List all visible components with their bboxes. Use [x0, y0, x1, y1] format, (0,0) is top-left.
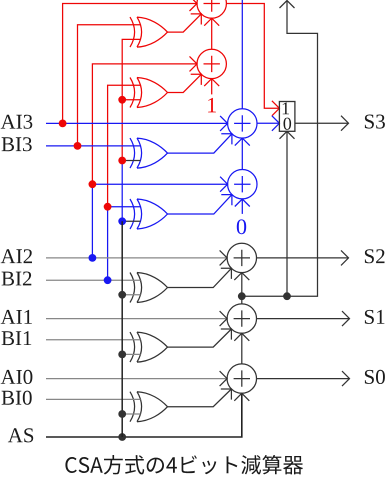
wire AI3 line [46, 122, 228, 124]
label BI3 [2, 137, 32, 151]
wire X2L out to FA2L [168, 195, 232, 214]
xor gate X2 (bit2) [130, 273, 168, 303]
wire AI2 to FA2H [92, 64, 197, 184]
wire constant 0 into FA2L [241, 199, 243, 214]
label AI0 [1, 370, 33, 384]
node AS/X0 junction [118, 410, 126, 418]
wire constant 1 into FA2H [211, 79, 213, 95]
node AS/X2 junction [118, 291, 126, 299]
wire BI3 line [46, 145, 141, 147]
wire AI0 line [46, 378, 227, 380]
full adder FA0 (bit0) [227, 364, 256, 393]
label AS [8, 428, 33, 442]
wire AS stub to X1 [122, 353, 140, 355]
wire AI2 branch to FA2L [92, 184, 227, 258]
wire X0 out to FA0 [168, 389, 232, 407]
node AS/X2L junction [118, 217, 126, 225]
xor gate X3H (red) [130, 17, 168, 47]
full adder FA2L (blue, carry=0 chain, bit2) [228, 170, 257, 199]
node carry branch [238, 292, 246, 300]
wire AS to X3H [122, 39, 140, 160]
node AI2/FA2L junction [89, 180, 97, 188]
wire AS line [46, 393, 242, 437]
wire select net [242, 1, 318, 297]
label constant 0 [237, 219, 246, 234]
mux M1 label 0 [284, 118, 292, 130]
xor gate X0 (bit0) [130, 392, 168, 422]
node BI2/X2L junction [104, 203, 112, 211]
caption CSA 4bit subtractor [65, 455, 303, 475]
wire S2 output [257, 257, 349, 259]
label AI3 [1, 115, 33, 129]
label constant 1 [208, 98, 216, 113]
wire AI2 line [46, 257, 227, 259]
node AS column junction [118, 433, 126, 441]
wire AS stub to X0 [122, 413, 140, 415]
xor gate X2L (blue) [130, 199, 168, 229]
node AI2 branch [89, 254, 97, 262]
full adder FA3H (red, carry=1 chain, bit3) [197, 0, 226, 18]
node AS/X2H junction [118, 96, 126, 104]
wire X1 out to FA1 [168, 329, 232, 347]
label BI0 [2, 391, 32, 405]
wire S3 output [295, 122, 349, 124]
wire S1 output [257, 318, 350, 320]
wire carry FA2H to FA3H [211, 18, 213, 49]
label AI2 [1, 249, 32, 263]
wire FA3L sum to mux input 0 [257, 122, 279, 124]
wire X2 out to FA2 [168, 268, 232, 287]
wire AS column (black) [121, 221, 123, 437]
wire BI2 branch to X2L [108, 207, 141, 281]
wire AS stub to X2L [122, 220, 140, 222]
wire X2H out to FA2H [168, 74, 202, 92]
mux M1 label 1 [283, 102, 289, 114]
wire AS to X2H [122, 99, 140, 101]
full adder FA1 (bit1) [227, 304, 256, 333]
wire BI3 to X3H [78, 25, 141, 146]
wire S0 output [257, 378, 350, 380]
wire BI1 line [46, 339, 141, 341]
xor gate X2H (red) [130, 78, 168, 108]
wire BI2 to X2H [108, 85, 141, 207]
label BI1 [2, 331, 32, 345]
wire AS stub to X2 [122, 294, 140, 296]
label S3 [365, 115, 385, 129]
wire AI1 line [46, 318, 227, 320]
node AI3 branch [59, 120, 67, 128]
label S2 [365, 249, 385, 263]
node select branch [283, 292, 291, 300]
wire BI0 line [46, 398, 141, 400]
node BI3 branch [74, 142, 82, 150]
wire FA3L carry out (top) [241, 0, 243, 109]
wire carry FA1 to FA2 [241, 273, 243, 304]
label AI1 [1, 310, 32, 324]
wire AS blue segment [121, 161, 123, 222]
label S0 [365, 370, 385, 384]
wire X3H out to FA3H [168, 14, 202, 32]
wire carry FA2L to FA3L [241, 138, 243, 169]
xor gate X1 (bit1) [130, 332, 168, 362]
wire FA3H sum to mux input 1 [226, 4, 279, 109]
full adder FA2 (bit2) [227, 243, 256, 272]
wire BI2 line [46, 279, 141, 281]
node BI2 branch [104, 276, 112, 284]
wire X3L out to FA3L [168, 134, 232, 153]
full adder FA2H (red, carry=1 chain, bit2) [197, 49, 226, 78]
xor gate X3L (blue) [130, 138, 168, 168]
node AS/X1 junction [118, 351, 126, 359]
label BI2 [2, 272, 32, 286]
wire AS stub to X3L [122, 160, 140, 162]
label S1 [365, 310, 385, 324]
wire select to mux [286, 131, 288, 296]
wire carry FA0 to FA1 [241, 333, 243, 364]
node AS/X3L junction [118, 157, 126, 165]
mux M1 box [279, 102, 295, 132]
wire AI3 to FA3H [63, 4, 197, 124]
full adder FA3L (blue, carry=0 chain, bit3) [228, 109, 257, 138]
